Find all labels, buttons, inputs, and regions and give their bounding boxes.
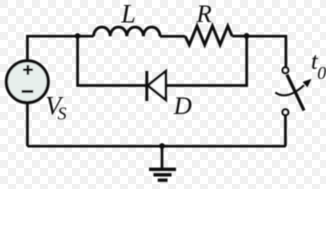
switch top terminal xyxy=(283,67,289,73)
wire bottom rail xyxy=(27,145,285,148)
diode D triangle xyxy=(148,71,166,100)
inductor L xyxy=(94,27,160,36)
wire diode to right vertical up xyxy=(166,36,247,85)
wire Vs bottom to rail xyxy=(26,102,29,146)
svg-text:0: 0 xyxy=(317,63,326,83)
diode D cathode bar xyxy=(145,71,148,101)
svg-text:S: S xyxy=(58,104,67,124)
wire switch to bottom rail xyxy=(284,116,287,146)
ground bar 1 xyxy=(149,168,176,171)
resistor R xyxy=(185,26,232,45)
ground stem xyxy=(161,146,164,168)
switch blade xyxy=(287,75,304,111)
wire resistor to right node xyxy=(232,35,247,38)
switch bottom terminal xyxy=(283,109,289,115)
ground bar 3 xyxy=(158,179,168,182)
svg-text:D: D xyxy=(173,93,192,120)
voltage source VS circle xyxy=(6,61,48,103)
plus sign xyxy=(23,65,33,75)
svg-text:L: L xyxy=(120,0,135,28)
wire Vs top to inductor xyxy=(27,36,93,61)
switch arrowhead xyxy=(304,80,311,87)
wire right node to switch corner xyxy=(247,36,286,67)
node junction left xyxy=(75,33,81,39)
switch motion arc xyxy=(275,85,304,95)
svg-text:R: R xyxy=(196,1,212,28)
node junction right xyxy=(244,33,250,39)
wire diode branch left vertical xyxy=(78,36,146,86)
node junction ground xyxy=(159,143,165,149)
wire inductor to resistor xyxy=(160,35,185,38)
ground bar 2 xyxy=(154,173,172,176)
minus sign xyxy=(22,90,34,93)
